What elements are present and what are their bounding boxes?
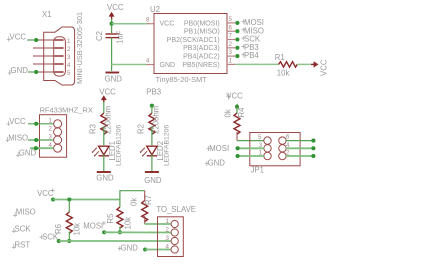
- svg-text:GND: GND: [96, 174, 114, 183]
- svg-text:8: 8: [146, 17, 150, 24]
- svg-text:4: 4: [146, 58, 150, 65]
- LED LED2 LEDFAB1206: [140, 125, 171, 166]
- wire VCC to RF.1: [28, 123, 54, 125]
- label GND (RF pin4): [16, 148, 36, 157]
- connector RF433MHZ_RX: [40, 106, 93, 158]
- svg-text:0k: 0k: [224, 109, 233, 117]
- pin stub U2.4: [147, 64, 155, 66]
- power VCC (above R3): [99, 87, 116, 102]
- label SCK: [242, 35, 261, 44]
- junction MOSI rail: [102, 230, 106, 234]
- svg-text:VCC: VCC: [160, 20, 175, 27]
- label PB4: [242, 51, 260, 60]
- svg-text:PB4: PB4: [244, 51, 259, 60]
- wire VCC rail: [53, 199, 120, 201]
- wire R6 lead: [68, 200, 70, 213]
- svg-text:GND: GND: [11, 66, 29, 75]
- svg-text:GND: GND: [121, 244, 139, 253]
- resistor R6 10k: [54, 212, 82, 236]
- svg-text:2: 2: [166, 226, 170, 233]
- junction R5/MOSI: [118, 230, 122, 234]
- svg-text:PB0(MOSI): PB0(MOSI): [184, 20, 220, 27]
- resistor R5 10k: [106, 207, 133, 230]
- svg-text:4: 4: [67, 62, 71, 69]
- svg-text:2: 2: [49, 126, 53, 133]
- wire GND to TO_SLAVE.4: [145, 249, 171, 251]
- wire R1 to VCC: [297, 63, 311, 65]
- junction SCK rail: [57, 239, 61, 243]
- svg-text:PB3: PB3: [146, 87, 161, 96]
- svg-text:PB5(NRES): PB5(NRES): [182, 62, 219, 69]
- svg-text:6: 6: [229, 24, 233, 31]
- ground (below LED2): [144, 172, 162, 185]
- wire VCC to X1.1: [27, 39, 36, 41]
- wire VCC to U2 pin8: [112, 23, 147, 25]
- wire U2.1 to R1: [235, 63, 278, 65]
- resistor R2 220ohm: [137, 106, 161, 135]
- resistor R1 10k: [275, 53, 298, 78]
- svg-text:5: 5: [229, 16, 233, 23]
- junction X1.1: [34, 38, 38, 42]
- svg-text:RF433MHZ_RX: RF433MHZ_RX: [40, 106, 93, 115]
- svg-text:VCC: VCC: [10, 33, 27, 42]
- svg-text:TO_SLAVE: TO_SLAVE: [156, 205, 196, 214]
- wire R5 bottom: [119, 227, 121, 233]
- svg-text:LEDFAB1206: LEDFAB1206: [164, 125, 171, 166]
- svg-text:10k: 10k: [73, 223, 82, 236]
- junction VCC/C2: [110, 22, 114, 26]
- svg-text:PB2(SCK/ADC1): PB2(SCK/ADC1): [167, 37, 220, 44]
- svg-text:4: 4: [166, 243, 170, 250]
- junction RF.4: [34, 146, 38, 150]
- capacitor C2 1uF: [95, 30, 125, 44]
- svg-text:MINI-USB-32005-301: MINI-USB-32005-301: [75, 12, 84, 84]
- wire SCK rail: [59, 240, 171, 242]
- svg-text:PB4(ADC2): PB4(ADC2): [183, 54, 220, 61]
- svg-text:VCC: VCC: [99, 87, 116, 96]
- svg-text:SCK: SCK: [15, 225, 32, 234]
- svg-text:5: 5: [67, 70, 71, 77]
- svg-text:GND: GND: [19, 148, 37, 157]
- junction dots + labels MOSI/MISO/SCK/PB3/PB4: [235, 21, 239, 58]
- svg-text:SCK: SCK: [42, 232, 59, 241]
- junction VCC rail: [51, 197, 55, 201]
- wire VCC to R3: [103, 102, 105, 113]
- svg-text:PB1(MISO): PB1(MISO): [184, 29, 220, 36]
- svg-text:MISO: MISO: [16, 208, 36, 217]
- svg-text:GND: GND: [105, 75, 123, 84]
- svg-text:R1: R1: [275, 53, 285, 62]
- svg-text:1: 1: [229, 58, 233, 65]
- wire R7 lead top: [144, 191, 146, 201]
- pin stubs U2 right: [227, 16, 235, 65]
- svg-text:220ohm: 220ohm: [104, 106, 113, 134]
- svg-text:1uF: 1uF: [116, 30, 125, 44]
- connector TO_SLAVE: [156, 205, 196, 257]
- svg-text:PB3(ADC3): PB3(ADC3): [183, 45, 220, 52]
- wire MISO to RF.3: [28, 139, 54, 141]
- LED LED1 LEDFAB1206: [92, 125, 123, 166]
- label SCK (floating): [12, 225, 32, 234]
- wire R6 bottom: [68, 232, 70, 242]
- svg-text:VCC: VCC: [320, 59, 329, 76]
- junction PB3: [150, 104, 154, 108]
- svg-text:3: 3: [229, 49, 233, 56]
- power VCC (top, above C2): [107, 3, 124, 20]
- svg-text:3: 3: [67, 54, 71, 61]
- svg-text:VCC: VCC: [9, 117, 26, 126]
- svg-text:R2: R2: [137, 124, 146, 134]
- svg-text:VCC: VCC: [107, 3, 124, 12]
- svg-text:R7: R7: [144, 195, 153, 205]
- wire R2 to LED2: [151, 126, 153, 145]
- label PB3: [242, 43, 259, 52]
- svg-text:LEDFAB1206: LEDFAB1206: [116, 125, 123, 166]
- svg-text:10k: 10k: [277, 69, 290, 78]
- pin stub U2.8: [147, 23, 155, 25]
- junction X1.5: [34, 70, 38, 74]
- svg-text:10k: 10k: [124, 217, 133, 230]
- junction R6/SCK: [67, 239, 71, 243]
- junction RF.3: [34, 138, 38, 142]
- wire JP1.6 right: [286, 140, 314, 142]
- svg-text:3: 3: [166, 235, 170, 242]
- wire JP1.4 right: [286, 147, 314, 149]
- label SCK (bottom): [39, 232, 59, 241]
- label MOSI (bottom): [83, 221, 106, 231]
- wire JP1.2 right: [286, 155, 314, 157]
- svg-text:GND: GND: [160, 62, 176, 69]
- svg-text:5: 5: [258, 134, 262, 141]
- svg-text:220ohm: 220ohm: [152, 106, 161, 134]
- junction GND stub: [143, 247, 147, 251]
- svg-text:R4: R4: [237, 107, 246, 118]
- ground (below LED1): [96, 172, 114, 183]
- svg-text:C2: C2: [95, 31, 104, 41]
- svg-text:2: 2: [229, 41, 233, 48]
- wire GND to X1.5: [28, 71, 36, 73]
- svg-text:MOSI: MOSI: [209, 144, 229, 153]
- junction MOSI: [236, 146, 240, 150]
- wire MOSI to JP1.3: [238, 147, 264, 149]
- svg-text:6: 6: [286, 134, 290, 141]
- svg-text:2: 2: [67, 46, 71, 53]
- wire VCC to R4: [236, 107, 238, 113]
- connector JP1: [250, 133, 300, 175]
- power VCC (above R4): [226, 92, 243, 101]
- svg-text:RST: RST: [15, 241, 31, 250]
- svg-text:MOSI: MOSI: [83, 222, 103, 231]
- svg-text:1: 1: [67, 38, 71, 45]
- wire C2 bottom down: [111, 38, 113, 71]
- svg-text:GND: GND: [144, 176, 162, 185]
- label VCC (RF pin1): [7, 117, 27, 126]
- svg-text:MISO: MISO: [8, 133, 28, 142]
- connector X1 (MINI-USB-32005-301): [33, 10, 84, 85]
- svg-text:U2: U2: [150, 5, 160, 14]
- label MISO: [242, 26, 264, 35]
- wire to U2 pin4: [112, 64, 147, 66]
- svg-text:1: 1: [166, 218, 170, 225]
- label VCC (bottom): [37, 188, 55, 198]
- label MOSI: [242, 18, 264, 27]
- label MOSI (JP1.3): [207, 144, 230, 153]
- svg-text:R3: R3: [89, 124, 98, 134]
- label RST (floating): [12, 241, 31, 250]
- junction RF.1: [34, 122, 38, 126]
- wire GND to JP1.1: [238, 155, 264, 157]
- resistor R4 0k: [224, 107, 246, 134]
- svg-text:X1: X1: [42, 10, 52, 19]
- wire VCC up-over to R7: [120, 191, 145, 207]
- label GND (X1 pin5): [8, 66, 28, 75]
- label MISO (RF pin3): [6, 133, 29, 142]
- svg-text:GND: GND: [208, 159, 226, 168]
- svg-text:R5: R5: [106, 213, 115, 224]
- resistor R3 220ohm: [89, 106, 113, 135]
- wire LED1 to GND: [103, 155, 105, 172]
- wire R4 to JP1.5: [236, 132, 238, 141]
- power VCC (right of R1): [311, 59, 329, 76]
- resistor R7 0k: [129, 195, 153, 222]
- wire VCC down to junction: [111, 19, 113, 33]
- junction R4 top: [235, 105, 239, 109]
- svg-text:7: 7: [229, 33, 233, 40]
- svg-text:Tiny85-20-SMT: Tiny85-20-SMT: [156, 75, 208, 84]
- junction GND: [236, 154, 240, 158]
- label VCC (X1 pin1): [7, 33, 27, 42]
- label GND (bottom): [118, 244, 138, 253]
- wire R3 to LED1: [103, 126, 105, 145]
- label GND (JP1.1): [205, 159, 225, 168]
- junction R6 top: [67, 197, 71, 201]
- svg-text:0k: 0k: [129, 198, 138, 206]
- IC U2 Tiny85-20-SMT: [150, 5, 227, 84]
- wire R7 to TO_SLAVE.1: [144, 216, 146, 224]
- wire PB3 to R2: [151, 106, 153, 114]
- wire MOSI rail: [104, 231, 171, 233]
- ground (below C2): [105, 73, 123, 84]
- label MISO (floating): [13, 208, 36, 217]
- wire LED2 to GND: [151, 155, 153, 172]
- wire GND to RF.4: [30, 147, 54, 149]
- svg-text:JP1: JP1: [251, 166, 264, 175]
